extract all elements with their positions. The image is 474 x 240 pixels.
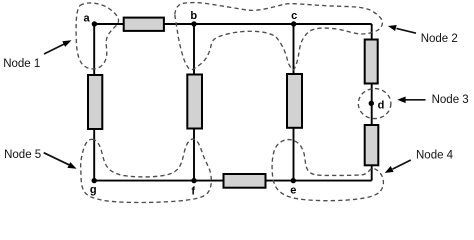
wire top a-b-c to right corner bbox=[94, 23, 372, 25]
text Node 4 bbox=[416, 149, 454, 161]
node 3 dashed circle bbox=[358, 89, 391, 119]
node g dot bbox=[92, 178, 97, 183]
arrow node4 bbox=[385, 160, 411, 173]
svg-text:Node 4: Node 4 bbox=[416, 149, 454, 161]
label c bbox=[291, 10, 297, 22]
svg-text:e: e bbox=[290, 185, 296, 197]
svg-text:a: a bbox=[83, 13, 90, 25]
node 4 dashed region bbox=[272, 140, 383, 201]
text Node 1 bbox=[3, 58, 40, 70]
node a dot bbox=[92, 21, 97, 26]
resistor top (between a and b) bbox=[124, 18, 164, 31]
arrow node1 bbox=[44, 40, 72, 54]
svg-text:d: d bbox=[378, 100, 385, 112]
node f dot bbox=[191, 178, 196, 183]
arrow node5 bbox=[44, 153, 77, 169]
resistor column b-f bbox=[187, 75, 202, 129]
node 5 dashed region bbox=[81, 139, 212, 202]
resistor right top bbox=[365, 40, 378, 84]
label e bbox=[290, 185, 296, 197]
node d dot bbox=[369, 101, 374, 106]
svg-text:Node 3: Node 3 bbox=[432, 94, 469, 106]
svg-text:g: g bbox=[90, 184, 97, 196]
node b dot bbox=[191, 21, 196, 26]
arrow node3 bbox=[397, 97, 425, 104]
label d bbox=[378, 100, 385, 112]
svg-text:Node 2: Node 2 bbox=[421, 33, 458, 45]
wire column b-f bbox=[193, 24, 195, 181]
arrow node2 bbox=[388, 25, 416, 33]
resistor right bottom bbox=[365, 125, 379, 165]
wire right column bbox=[371, 24, 373, 181]
svg-text:Node 1: Node 1 bbox=[3, 58, 40, 70]
text Node 5 bbox=[4, 149, 41, 161]
svg-text:c: c bbox=[291, 10, 297, 22]
wire bottom g-f-e to right corner bbox=[94, 180, 372, 182]
node e dot bbox=[291, 178, 296, 183]
resistor column a-g bbox=[88, 75, 102, 129]
svg-text:b: b bbox=[190, 10, 197, 22]
label g bbox=[90, 184, 97, 196]
svg-text:Node 5: Node 5 bbox=[4, 149, 41, 161]
node 2 dashed region bbox=[175, 3, 383, 70]
label f bbox=[191, 186, 195, 198]
wire left column a-g bbox=[93, 24, 95, 181]
text Node 2 bbox=[421, 33, 458, 45]
label a bbox=[83, 13, 90, 25]
wire column c-e bbox=[293, 24, 295, 181]
text Node 3 bbox=[432, 94, 469, 106]
node 1 dashed region bbox=[76, 3, 119, 69]
svg-text:f: f bbox=[191, 186, 195, 198]
node c dot bbox=[291, 21, 296, 26]
resistor column c-e bbox=[287, 74, 302, 128]
resistor bottom (between f and e) bbox=[224, 174, 266, 188]
label b bbox=[190, 10, 197, 22]
